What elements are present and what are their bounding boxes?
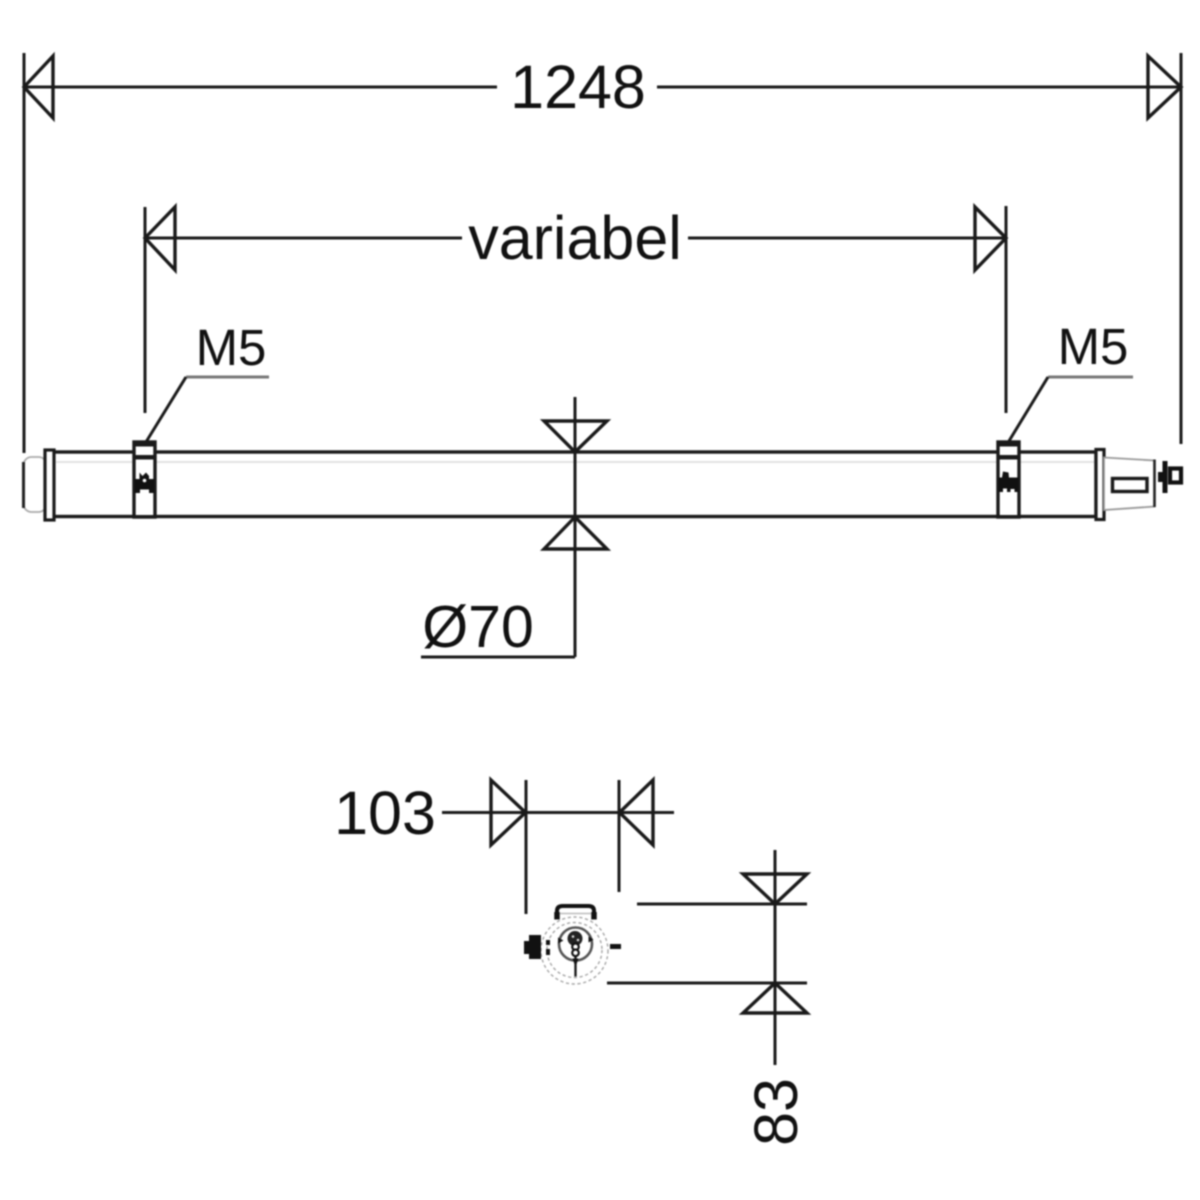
svg-text:83: 83 — [742, 1078, 810, 1146]
svg-text:variabel: variabel — [468, 204, 682, 272]
svg-text:1248: 1248 — [510, 53, 646, 121]
svg-text:103: 103 — [334, 779, 436, 847]
svg-text:M5: M5 — [196, 319, 267, 376]
svg-text:M5: M5 — [1058, 318, 1129, 375]
svg-text:Ø70: Ø70 — [422, 594, 534, 660]
